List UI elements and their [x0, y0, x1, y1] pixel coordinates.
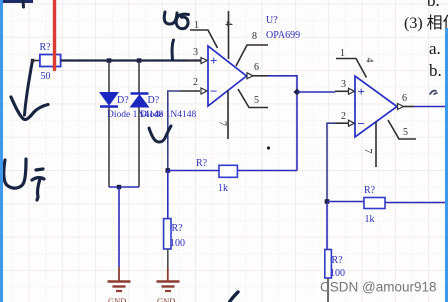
- svg-text:(3) 相位: (3) 相位: [404, 14, 448, 32]
- wire: [33, 60, 41, 62]
- wire: [168, 170, 219, 172]
- svg-text:D?: D?: [117, 95, 129, 106]
- pin 5 (op-amp U2): [388, 120, 416, 139]
- wire: [61, 59, 201, 61]
- annotation: handwritten check under diodes: [149, 126, 171, 142]
- stray dot: [267, 146, 270, 149]
- svg-text:R?: R?: [196, 158, 208, 169]
- svg-text:50: 50: [41, 71, 51, 82]
- wire pin2 of U2: [327, 123, 335, 201]
- svg-text:7: 7: [362, 149, 373, 154]
- screen edge bar right: [445, 28, 448, 302]
- pin 7 (op-amp U2): [362, 122, 376, 167]
- op-amp U? OPA699: [208, 15, 300, 106]
- svg-text:−: −: [210, 84, 217, 99]
- svg-text:6: 6: [254, 62, 259, 73]
- wire: [108, 62, 110, 93]
- svg-text:R?: R?: [172, 223, 184, 234]
- node: wire start terminal: [31, 59, 35, 63]
- svg-text:−: −: [358, 116, 365, 131]
- node junction: [107, 58, 112, 63]
- resistor R? 1k (feedback): [196, 158, 237, 194]
- pin 2 (op-amp U2) with marker: [335, 111, 355, 126]
- svg-text:a.: a.: [429, 39, 441, 58]
- wire output of U2: [414, 106, 445, 108]
- wire: [296, 95, 298, 171]
- op-amp U2: [355, 76, 397, 137]
- node junction: [294, 89, 301, 96]
- document text right: [404, 0, 448, 80]
- wire: [118, 187, 120, 267]
- svg-text:R?: R?: [332, 255, 344, 266]
- annotation: handwritten stroke above pin3 wire: [172, 40, 173, 60]
- diode D? 1N4148 (right, cathode up): [131, 94, 160, 108]
- pin 3 (op-amp U?) with input marker: [188, 47, 207, 64]
- svg-text:1k: 1k: [218, 183, 228, 194]
- svg-text:GND: GND: [157, 296, 175, 302]
- pin 1 (op-amp U2): [336, 48, 367, 78]
- pin 2 (op-amp U?) with input marker: [180, 77, 207, 94]
- pin 4 (op-amp U?): [223, 11, 234, 59]
- svg-text:8: 8: [252, 31, 257, 42]
- annotation: handwritten Uo (top): [164, 12, 188, 29]
- svg-text:U?: U?: [266, 15, 278, 26]
- svg-text:4: 4: [364, 58, 375, 63]
- wire: [167, 249, 169, 268]
- wire: [327, 201, 364, 203]
- pin 3 (op-amp U2) with marker: [335, 79, 355, 94]
- wire: main input to pin 3 already drawn; wire pin2 of U?: [168, 91, 180, 171]
- svg-text:7: 7: [217, 121, 228, 126]
- svg-text:3: 3: [193, 47, 198, 58]
- resistor R? 1k (right): [364, 185, 385, 225]
- wire: [109, 186, 139, 188]
- pin 6 output (op-amp U?) with marker: [247, 62, 268, 79]
- svg-text:D?: D?: [148, 95, 160, 106]
- svg-text:6: 6: [402, 93, 407, 104]
- wire: [327, 278, 329, 302]
- svg-text:3: 3: [341, 79, 346, 90]
- svg-text:b.: b.: [427, 0, 440, 10]
- wire: [138, 107, 140, 187]
- annotation: small squiggle right: [430, 91, 437, 94]
- annotation: handwritten Ui (left): [4, 159, 44, 200]
- annotation: handwritten tick top left: [22, 0, 26, 7]
- node junction: [117, 185, 121, 189]
- wire: [167, 171, 169, 219]
- wire feedback: [237, 170, 297, 172]
- svg-text:2: 2: [193, 77, 198, 88]
- svg-text:100: 100: [330, 268, 345, 279]
- pin 8 (op-amp U?): [236, 31, 268, 66]
- svg-text:1k: 1k: [365, 214, 375, 225]
- svg-text:1: 1: [340, 48, 345, 59]
- svg-text:2: 2: [341, 111, 346, 122]
- annotation: handwritten stroke bottom center: [229, 292, 238, 302]
- wire: [385, 202, 445, 204]
- pin 1 (op-amp U?): [190, 20, 218, 48]
- node junction: [137, 58, 142, 63]
- resistor R? 100 (right): [325, 250, 345, 280]
- svg-text:5: 5: [254, 95, 259, 106]
- node junction: [166, 168, 171, 173]
- svg-text:+: +: [210, 53, 217, 68]
- ground GND (left): [108, 267, 131, 302]
- wire: [0, 0, 33, 3]
- svg-text:5: 5: [403, 127, 408, 138]
- screen edge bar left: [0, 0, 3, 302]
- pin 7 (op-amp U?): [217, 91, 229, 140]
- ground GND (right of pair): [157, 268, 180, 302]
- wire: [138, 62, 140, 94]
- resistor R? 50: [40, 42, 61, 82]
- annotation: red marker line: [53, 0, 56, 70]
- wire: [326, 204, 328, 250]
- svg-text:GND: GND: [108, 296, 126, 302]
- svg-text:+: +: [358, 84, 365, 99]
- svg-text:1: 1: [194, 20, 199, 31]
- annotation: handwritten arrow/check left: [25, 63, 33, 115]
- pin 6 output (op-amp U2) with marker: [398, 93, 415, 110]
- svg-text:R?: R?: [364, 185, 376, 196]
- wire: [297, 91, 335, 93]
- pin 5 (op-amp U?): [238, 89, 268, 108]
- wire: [108, 108, 110, 188]
- svg-text:OPA699: OPA699: [266, 30, 300, 41]
- wire: output of U?: [268, 76, 297, 92]
- node junction: [325, 199, 330, 204]
- diode D? 1N4148 (left, cathode down): [100, 93, 129, 107]
- svg-text:b.: b.: [429, 61, 442, 80]
- svg-text:100: 100: [170, 238, 185, 249]
- svg-text:4: 4: [223, 21, 234, 26]
- resistor R? 100 (left): [164, 219, 185, 249]
- svg-text:R?: R?: [40, 42, 52, 53]
- svg-text:CSDN @amour918: CSDN @amour918: [320, 280, 437, 295]
